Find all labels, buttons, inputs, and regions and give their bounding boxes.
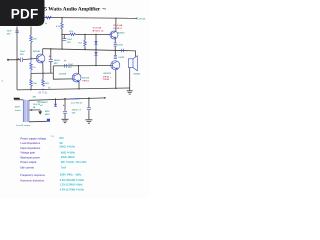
- svg-text:7mA: 7mA: [61, 167, 67, 170]
- svg-text:5W, f=1kHz, TH 0.10%: 5W, f=1kHz, TH 0.10%: [61, 161, 87, 164]
- svg-text:40Hz-16kHz: 40Hz-16kHz: [61, 156, 76, 159]
- transistor Q4: [110, 31, 118, 39]
- wire bootstrap y65.7: [53, 65, 96, 67]
- svg-text:+20 (V): +20 (V): [138, 19, 146, 21]
- polarity mark red: [49, 55, 51, 57]
- junction dots bottom rail: [30, 89, 31, 90]
- resistor R9 emitter 0.47: [114, 43, 117, 46]
- capacitor C5 output on rail: [121, 49, 123, 52]
- resistor R8: [84, 40, 87, 46]
- wire top supply rail: [44, 17, 137, 20]
- wire base feed y34.5: [62, 33, 70, 35]
- wire bias branch x62: [61, 18, 63, 23]
- svg-text:Low VR-1k: Low VR-1k: [71, 103, 83, 105]
- svg-text:5 Watts Audio Amplifier: 5 Watts Audio Amplifier: [44, 7, 100, 13]
- junction input/left branch: [16, 59, 17, 60]
- resistor R10 0.47 lower: [114, 55, 117, 58]
- diode D3 rectifier: [47, 119, 50, 122]
- resistor R6: [61, 23, 64, 29]
- ground G1 main: [127, 88, 133, 94]
- svg-text:0.47Ω: 0.47Ω: [118, 56, 124, 59]
- resistor R8 branch x85: [84, 35, 86, 41]
- svg-text:0.3% (50mW) f=1kHz: 0.3% (50mW) f=1kHz: [60, 179, 85, 182]
- wire Q4 emitter: [114, 39, 116, 43]
- svg-text:2A: 2A: [33, 106, 36, 109]
- svg-text:Idle current: Idle current: [20, 167, 34, 170]
- svg-text:3dB= 34Hz, ~1kHz: 3dB= 34Hz, ~1kHz: [60, 174, 82, 177]
- junction dots rail2: [64, 98, 66, 100]
- svg-text:10uF: 10uF: [68, 64, 74, 66]
- capacitor C3: [49, 60, 53, 62]
- svg-text:0.47Ω: 0.47Ω: [117, 44, 123, 47]
- svg-text:100uF: 100uF: [54, 60, 61, 62]
- diode D1: [94, 41, 97, 44]
- svg-text:25V: 25V: [20, 54, 24, 56]
- wire R9 to output node: [114, 46, 116, 50]
- svg-text:100uF +1: 100uF +1: [72, 109, 82, 111]
- svg-text:16V: 16V: [72, 112, 76, 114]
- resistor R2 branch vertical: [30, 27, 32, 36]
- svg-text:10kΩ, f=1kHz: 10kΩ, f=1kHz: [59, 146, 75, 149]
- svg-text:25V: 25V: [68, 67, 72, 69]
- svg-text:2N3053: 2N3053: [117, 32, 125, 34]
- svg-text:Tc 25°C: Tc 25°C: [113, 28, 122, 30]
- ground G3: [62, 119, 69, 122]
- wire input: [8, 59, 20, 61]
- wire Q4 collector to rail: [115, 18, 117, 31]
- svg-text:Maximum power: Maximum power: [20, 156, 40, 159]
- junction diode chain bottom: [95, 65, 96, 66]
- svg-text:TIP42: TIP42: [103, 78, 110, 81]
- PDF badge: [0, 0, 45, 26]
- svg-text:mains: mains: [15, 110, 22, 112]
- junction mid rail crossing: [95, 49, 96, 50]
- wire R7 to Q4 base: [75, 33, 110, 35]
- svg-text:Harmonic distortion: Harmonic distortion: [20, 179, 44, 182]
- wire R2 to base node: [30, 42, 32, 58]
- svg-text:10uF: 10uF: [67, 39, 73, 41]
- wire C3 to bus: [50, 62, 52, 73]
- svg-text:TIP41 +: TIP41 +: [103, 75, 112, 78]
- wire cap to base: [23, 59, 36, 60]
- wire rail2 blue overdraw: [70, 98, 80, 100]
- resistor R7: [70, 33, 75, 36]
- svg-text:Vr=0.89: Vr=0.89: [93, 28, 102, 30]
- wire Q2 collector up: [77, 66, 79, 74]
- polarity mark red: [64, 60, 66, 62]
- junction bias node: [61, 34, 62, 35]
- svg-text:IC=0.4A: IC=0.4A: [113, 24, 122, 27]
- svg-text:BΩ1: BΩ1: [45, 114, 50, 116]
- ground G2 center tap arrow: [39, 110, 41, 112]
- resistor R5 under Q1 emitter: [42, 79, 45, 86]
- capacitor C4 bypass: [63, 39, 67, 41]
- wire R4 top segment: [30, 73, 32, 79]
- svg-text:BD139: BD139: [82, 77, 90, 79]
- capacitor C7 filter: [64, 99, 66, 111]
- junction emitter bus: [42, 72, 43, 73]
- svg-text:Power output: Power output: [20, 161, 36, 164]
- wire Q1 emitter down: [42, 63, 44, 73]
- svg-text:Input impedance: Input impedance: [20, 147, 40, 150]
- wire R5 stubs: [42, 73, 44, 79]
- wire feedback branch x50.8: [50, 49, 52, 59]
- junction output node: [115, 50, 116, 51]
- svg-text:BY127 x2: BY127 x2: [93, 31, 105, 33]
- wire diode chain x96: [95, 35, 97, 66]
- wire corner down x53.3: [52, 66, 54, 73]
- svg-text:=〃: =〃: [50, 135, 54, 138]
- svg-text:Power supply voltage: Power supply voltage: [20, 138, 46, 141]
- svg-text:Low Ω output: Low Ω output: [16, 124, 30, 127]
- resistor R1 on top rail: [46, 16, 52, 19]
- svg-text:8Ω/4Ω: 8Ω/4Ω: [134, 73, 141, 76]
- wire Q1 collector to mid rail: [42, 49, 44, 55]
- wire Q2 emitter down: [78, 82, 80, 89]
- svg-text:Voltage gain: Voltage gain: [20, 152, 35, 155]
- polarity mark red: [18, 58, 20, 60]
- junction: [50, 48, 51, 49]
- svg-text:25V: 25V: [7, 34, 11, 36]
- speaker LS1: [128, 56, 137, 71]
- capacitor C6 series: [65, 64, 67, 68]
- capacitor C1 on left branch: [15, 31, 19, 33]
- title dash mark: [103, 8, 107, 10]
- transistor Q1: [36, 54, 45, 63]
- svg-text:25V: 25V: [54, 63, 58, 65]
- resistor R2: [30, 35, 33, 42]
- capacitor C4 stub: [63, 34, 65, 38]
- wire mid output rail: [43, 49, 136, 57]
- transformer input terminal dash: [14, 98, 20, 100]
- wire R6 down to mid rail: [61, 29, 63, 49]
- junction top rail: [61, 17, 62, 18]
- diode D4 drop: [55, 98, 57, 103]
- wire PSU rail2: [29, 98, 105, 100]
- input terminal: [7, 59, 9, 61]
- wire R8 to mid rail: [84, 46, 86, 49]
- svg-text:TIP31: TIP31: [82, 81, 89, 83]
- svg-text:1N4007: 1N4007: [40, 101, 48, 104]
- svg-text:220V: 220V: [15, 107, 21, 109]
- svg-text:BC548: BC548: [33, 50, 41, 53]
- junction base node: [30, 58, 31, 59]
- svg-text:2N3055: 2N3055: [103, 73, 111, 75]
- svg-text:9dB, f=1kHz: 9dB, f=1kHz: [61, 152, 76, 155]
- wire secondary bottom: [29, 120, 47, 123]
- diode D2: [94, 52, 97, 55]
- resistor R3 on R2 branch: [30, 58, 33, 73]
- wire center tap: [29, 109, 40, 111]
- svg-text:BC558: BC558: [59, 73, 67, 75]
- wire speaker bottom to ground rail: [129, 68, 131, 88]
- capacitor C2 input coupling: [21, 58, 23, 62]
- svg-text:PDF: PDF: [11, 6, 39, 21]
- capacitor C8 filter: [88, 98, 90, 107]
- polarity mark red: [16, 29, 18, 31]
- svg-text:4Ω: 4Ω: [37, 101, 40, 104]
- svg-text:10uF: 10uF: [7, 31, 13, 33]
- wire bottom rail: [17, 88, 130, 90]
- transformer T1 windings: [23, 100, 29, 122]
- rail2 end dot: [104, 97, 106, 99]
- transistor Q5: [111, 61, 120, 70]
- svg-text:Load impedance: Load impedance: [20, 142, 40, 145]
- transformer primary wires: [14, 99, 23, 101]
- svg-text:(R 7+1): (R 7+1): [39, 90, 48, 94]
- wire left vertical branch: [16, 27, 18, 90]
- junction: [95, 34, 96, 35]
- polarity mark red: [63, 105, 64, 106]
- svg-text:4.5% (3.75W) f=1kHz: 4.5% (3.75W) f=1kHz: [60, 188, 85, 191]
- junction: [84, 34, 85, 35]
- polarity mark red: [63, 36, 65, 38]
- junction mid rail: [61, 48, 62, 49]
- wire bus corner down to Q2 base level: [53, 73, 72, 79]
- svg-text:Frequency response: Frequency response: [20, 174, 45, 177]
- svg-text:25V: 25V: [67, 42, 71, 44]
- svg-text:1.2% (2.5W) f=1kHz: 1.2% (2.5W) f=1kHz: [60, 184, 83, 187]
- wire Q5 emitter to rail: [115, 70, 117, 89]
- transistor Q2: [72, 73, 81, 82]
- wire emitter bus y73: [31, 72, 53, 74]
- wire Q5 base feed: [96, 65, 111, 67]
- resistor R4: [30, 79, 33, 86]
- spec table: [20, 135, 87, 192]
- red speck left margin: [2, 81, 3, 82]
- svg-text:10uF: 10uF: [20, 51, 26, 53]
- wire output node to R10 to Q5: [114, 50, 116, 55]
- wire R4 to rail: [30, 86, 32, 90]
- svg-text:20V: 20V: [59, 137, 64, 140]
- ground G4: [85, 120, 92, 123]
- svg-text:4Ω: 4Ω: [59, 142, 62, 145]
